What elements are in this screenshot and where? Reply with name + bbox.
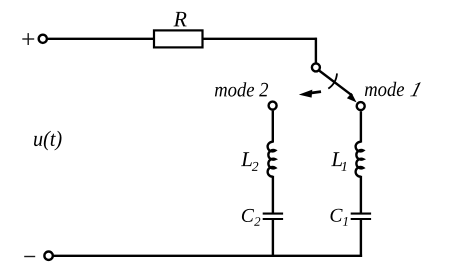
label C1 bbox=[331, 209, 348, 226]
arrow pointing left (switching direction) bbox=[299, 90, 321, 98]
label mode 1 bbox=[365, 82, 421, 96]
switch blade with arrowhead toward mode 1 contact bbox=[318, 70, 356, 102]
wire mode2 contact down to L2 bbox=[272, 111, 274, 143]
resistor R bbox=[154, 30, 203, 47]
arc across switch blade bbox=[328, 73, 337, 88]
mode 1 contact circle bbox=[357, 102, 365, 110]
wire C1 down to bottom corner bbox=[360, 220, 362, 257]
capacitor C1 bbox=[351, 214, 371, 219]
terminal - (open circle) bbox=[44, 252, 52, 260]
inductor L1 coil bbox=[356, 142, 364, 177]
bottom wire bbox=[53, 255, 362, 257]
minus sign of source terminal bbox=[24, 256, 35, 258]
label L2 bbox=[241, 152, 258, 171]
wire mode1 contact down to L1 bbox=[360, 111, 362, 142]
label mode 2 bbox=[215, 82, 268, 96]
wire vertical down to switch pivot bbox=[315, 38, 317, 63]
wire L2 to C2 bbox=[272, 176, 274, 213]
wire top horizontal left of R bbox=[47, 38, 154, 40]
capacitor C2 bbox=[263, 214, 283, 219]
mode 2 contact circle bbox=[269, 102, 277, 110]
label u(t) bbox=[34, 131, 62, 151]
terminal + (open circle) bbox=[39, 35, 47, 43]
label L1 bbox=[331, 152, 346, 171]
wire top horizontal right of R bbox=[203, 38, 317, 40]
wire C2 down to bottom wire bbox=[272, 220, 274, 257]
plus sign of source terminal bbox=[22, 33, 34, 45]
inductor L2 coil bbox=[268, 142, 276, 177]
wire L1 to C1 bbox=[360, 176, 362, 213]
switch pivot circle bbox=[312, 63, 320, 71]
label R bbox=[174, 12, 187, 27]
label C2 bbox=[242, 209, 260, 226]
